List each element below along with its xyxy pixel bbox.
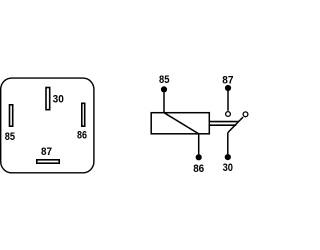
svg-text:87: 87 (222, 75, 233, 87)
svg-text:30: 30 (223, 162, 233, 174)
svg-text:85: 85 (5, 131, 15, 143)
svg-text:86: 86 (193, 163, 204, 175)
svg-text:87: 87 (41, 146, 52, 158)
svg-text:30: 30 (53, 93, 64, 105)
svg-text:85: 85 (159, 74, 170, 86)
svg-text:86: 86 (77, 130, 87, 142)
